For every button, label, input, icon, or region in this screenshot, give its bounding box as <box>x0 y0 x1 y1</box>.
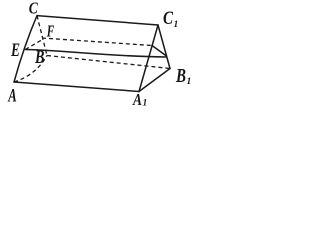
svg-text:1: 1 <box>143 99 148 109</box>
wire edge AA1 <box>14 82 139 92</box>
wire edge A1C1 <box>139 25 158 92</box>
wire edge A1B1 <box>139 69 170 92</box>
wire hidden edge AB <box>14 56 47 83</box>
wire hidden edge CB <box>37 16 47 56</box>
wire hidden edge BB1 <box>47 56 170 69</box>
svg-text:B: B <box>34 47 44 68</box>
wire hidden section line F to A1C1 <box>42 38 152 46</box>
svg-text:C: C <box>163 9 174 29</box>
wire edge AC <box>14 16 37 82</box>
wire section segment P to B1 <box>152 46 167 57</box>
svg-text:B: B <box>175 66 186 87</box>
svg-text:1: 1 <box>174 20 179 30</box>
wire segment EF <box>25 40 42 50</box>
wire edge C1B1 <box>158 25 170 69</box>
svg-text:C: C <box>29 0 39 18</box>
svg-text:A: A <box>132 90 142 109</box>
svg-text:E: E <box>10 40 20 61</box>
svg-text:F: F <box>46 22 54 41</box>
svg-text:A: A <box>8 86 17 107</box>
wire edge CC1 <box>37 16 158 25</box>
svg-text:1: 1 <box>187 77 192 87</box>
wire section line E to right face <box>25 50 166 58</box>
